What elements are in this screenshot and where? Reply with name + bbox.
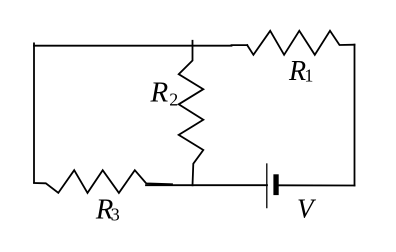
svg-text:R: R — [288, 56, 306, 87]
svg-text:3: 3 — [111, 205, 120, 225]
svg-text:V: V — [297, 193, 317, 223]
wire: bottom right (battery to right corner) — [279, 184, 355, 186]
wire: bottom middle (R2 junction to battery) — [146, 184, 267, 186]
svg-text:2: 2 — [169, 89, 178, 109]
label R3 — [95, 194, 120, 225]
battery V positive plate (short thick) — [273, 174, 278, 195]
svg-text:R: R — [150, 77, 169, 109]
label R1 — [288, 56, 313, 87]
resistor R3 — [34, 170, 172, 193]
wire: top horizontal (left of jog) — [34, 45, 232, 47]
battery V negative plate (long thin) — [266, 164, 268, 208]
wire: right vertical — [354, 45, 356, 186]
svg-text:1: 1 — [304, 65, 313, 85]
wire: top horizontal (jog to R1) — [232, 44, 248, 46]
resistor R2 — [179, 41, 204, 186]
label R2 — [150, 77, 179, 110]
wire: left vertical — [33, 43, 35, 182]
resistor R1 — [247, 31, 354, 55]
